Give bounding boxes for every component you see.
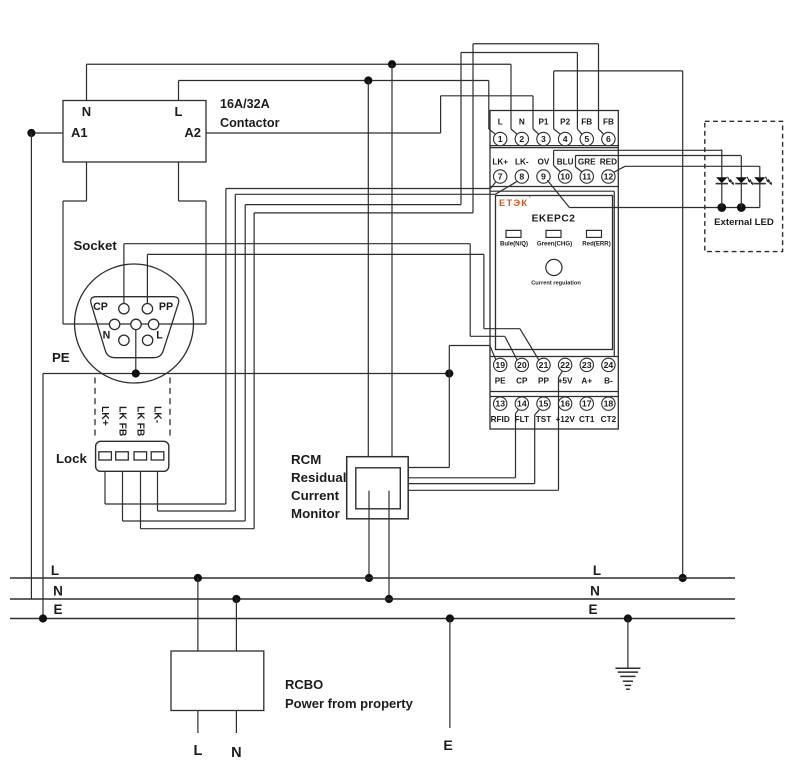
svg-text:21: 21 bbox=[539, 360, 549, 370]
svg-text:CT1: CT1 bbox=[579, 415, 595, 424]
svg-text:14: 14 bbox=[517, 399, 527, 409]
svg-text:CT2: CT2 bbox=[601, 415, 617, 424]
svg-text:Green(CHG): Green(CHG) bbox=[537, 240, 572, 247]
svg-text:TST: TST bbox=[536, 415, 551, 424]
svg-text:L: L bbox=[156, 330, 163, 342]
svg-text:24: 24 bbox=[604, 360, 614, 370]
svg-text:External LED: External LED bbox=[714, 217, 774, 228]
svg-text:LK FB: LK FB bbox=[116, 406, 127, 436]
svg-text:N: N bbox=[590, 584, 600, 599]
svg-text:11: 11 bbox=[582, 172, 591, 182]
svg-text:20: 20 bbox=[517, 360, 527, 370]
svg-text:13: 13 bbox=[495, 399, 505, 409]
svg-text:Monitor: Monitor bbox=[291, 506, 340, 521]
svg-text:LK FB: LK FB bbox=[134, 406, 145, 436]
svg-text:LK+: LK+ bbox=[492, 158, 508, 167]
svg-text:19: 19 bbox=[495, 360, 505, 370]
svg-text:FB: FB bbox=[603, 118, 614, 127]
svg-text:15: 15 bbox=[539, 399, 549, 409]
svg-text:GRE: GRE bbox=[578, 158, 596, 167]
svg-text:LK+: LK+ bbox=[99, 406, 110, 426]
svg-text:RFID: RFID bbox=[491, 415, 510, 424]
svg-text:1: 1 bbox=[498, 134, 503, 144]
svg-text:N: N bbox=[103, 330, 111, 342]
svg-text:Current: Current bbox=[291, 488, 340, 503]
svg-text:Socket: Socket bbox=[74, 238, 118, 253]
svg-text:12: 12 bbox=[604, 172, 614, 182]
svg-text:Red(ERR): Red(ERR) bbox=[582, 240, 610, 247]
svg-text:+5V: +5V bbox=[558, 376, 573, 385]
svg-text:CP: CP bbox=[93, 301, 108, 313]
svg-text:2: 2 bbox=[519, 134, 524, 144]
svg-text:17: 17 bbox=[582, 399, 592, 409]
svg-text:RED: RED bbox=[600, 158, 617, 167]
svg-text:16A/32A: 16A/32A bbox=[220, 97, 270, 111]
svg-text:10: 10 bbox=[560, 172, 570, 182]
svg-text:+12V: +12V bbox=[555, 415, 575, 424]
svg-text:16: 16 bbox=[560, 399, 570, 409]
svg-text:PP: PP bbox=[538, 376, 549, 385]
svg-text:E: E bbox=[443, 737, 452, 753]
svg-text:OV: OV bbox=[538, 158, 550, 167]
svg-text:BLU: BLU bbox=[557, 158, 574, 167]
svg-text:4: 4 bbox=[563, 134, 568, 144]
svg-text:22: 22 bbox=[560, 360, 570, 370]
svg-text:FB: FB bbox=[581, 118, 592, 127]
svg-text:L: L bbox=[51, 563, 59, 578]
svg-text:L: L bbox=[193, 743, 202, 759]
svg-text:B-: B- bbox=[604, 376, 613, 385]
svg-text:PE: PE bbox=[52, 350, 70, 365]
svg-text:RCM: RCM bbox=[291, 452, 321, 467]
svg-text:ЕТЭК: ЕТЭК bbox=[499, 198, 528, 208]
svg-text:CP: CP bbox=[516, 376, 528, 385]
svg-text:7: 7 bbox=[498, 172, 503, 182]
svg-text:P1: P1 bbox=[538, 118, 548, 127]
svg-text:Bule(N/Q): Bule(N/Q) bbox=[500, 240, 528, 247]
svg-text:N: N bbox=[53, 584, 63, 599]
svg-text:8: 8 bbox=[519, 172, 524, 182]
svg-text:18: 18 bbox=[604, 399, 614, 409]
svg-text:EKEPC2: EKEPC2 bbox=[532, 214, 576, 225]
svg-text:23: 23 bbox=[582, 360, 592, 370]
svg-text:Power from property: Power from property bbox=[285, 696, 414, 711]
svg-text:E: E bbox=[53, 602, 62, 617]
svg-text:L: L bbox=[175, 104, 183, 119]
svg-text:6: 6 bbox=[606, 134, 611, 144]
svg-text:A+: A+ bbox=[581, 376, 592, 385]
svg-text:RCBO: RCBO bbox=[285, 677, 323, 692]
svg-text:A2: A2 bbox=[184, 125, 201, 140]
svg-text:A1: A1 bbox=[71, 125, 88, 140]
svg-text:LK-: LK- bbox=[515, 158, 529, 167]
svg-text:E: E bbox=[588, 602, 597, 617]
svg-text:9: 9 bbox=[541, 172, 546, 182]
svg-text:N: N bbox=[231, 745, 241, 761]
svg-text:FLT: FLT bbox=[515, 415, 529, 424]
svg-text:N: N bbox=[519, 118, 525, 127]
svg-text:5: 5 bbox=[584, 134, 589, 144]
svg-text:P2: P2 bbox=[560, 118, 570, 127]
svg-text:Lock: Lock bbox=[56, 451, 87, 466]
svg-text:N: N bbox=[82, 104, 91, 119]
svg-text:Residual: Residual bbox=[291, 470, 346, 485]
svg-text:Contactor: Contactor bbox=[220, 116, 280, 130]
svg-text:LK-: LK- bbox=[151, 406, 162, 424]
svg-text:Current regulation: Current regulation bbox=[531, 281, 581, 287]
svg-text:PE: PE bbox=[495, 376, 506, 385]
svg-text:PP: PP bbox=[159, 301, 173, 313]
svg-text:L: L bbox=[593, 563, 601, 578]
svg-text:3: 3 bbox=[541, 134, 546, 144]
svg-text:L: L bbox=[498, 118, 503, 127]
